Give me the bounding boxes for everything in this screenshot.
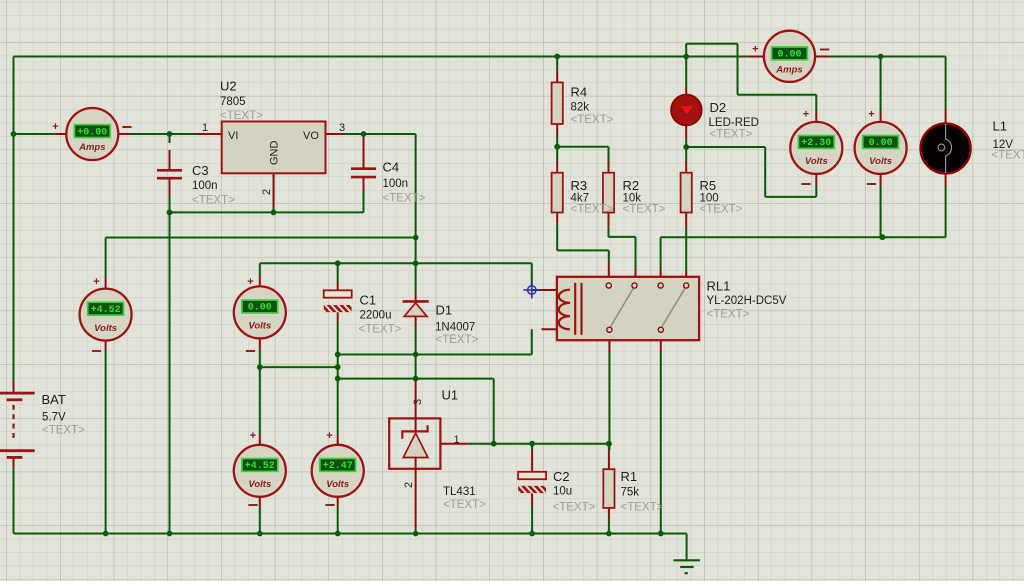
svg-text:100n: 100n: [383, 178, 409, 190]
svg-text:VI: VI: [228, 130, 238, 142]
svg-text:VO: VO: [303, 130, 319, 142]
svg-text:2: 2: [403, 482, 415, 488]
svg-text:Volts: Volts: [869, 156, 892, 167]
svg-text:R2: R2: [623, 178, 640, 193]
svg-text:<TEXT>: <TEXT>: [42, 425, 85, 437]
svg-text:5.7V: 5.7V: [42, 412, 66, 424]
svg-text:C3: C3: [192, 163, 209, 178]
svg-text:<TEXT>: <TEXT>: [707, 309, 750, 321]
svg-text:TL431: TL431: [443, 486, 476, 498]
svg-text:<TEXT>: <TEXT>: [220, 110, 263, 122]
svg-text:+2.30: +2.30: [801, 138, 831, 149]
svg-text:D1: D1: [436, 303, 453, 318]
svg-text:LED-RED: LED-RED: [709, 117, 759, 129]
svg-text:7805: 7805: [220, 96, 246, 108]
svg-text:1N4007: 1N4007: [435, 322, 475, 334]
svg-text:2200u: 2200u: [360, 310, 392, 322]
svg-text:<TEXT>: <TEXT>: [571, 114, 614, 126]
svg-text:C4: C4: [383, 160, 400, 175]
svg-text:<TEXT>: <TEXT>: [710, 129, 753, 141]
svg-text:R5: R5: [700, 178, 717, 193]
svg-text:75k: 75k: [621, 487, 640, 499]
svg-text:+: +: [247, 276, 253, 288]
svg-text:<TEXT>: <TEXT>: [383, 193, 426, 205]
svg-text:R3: R3: [571, 178, 588, 193]
svg-text:D2: D2: [710, 100, 727, 115]
svg-text:Volts: Volts: [248, 321, 271, 332]
svg-text:100n: 100n: [192, 180, 218, 192]
svg-text:YL-202H-DC5V: YL-202H-DC5V: [707, 295, 787, 307]
svg-text:+: +: [868, 109, 874, 121]
svg-text:0.00: 0.00: [248, 303, 272, 314]
svg-text:+: +: [326, 430, 332, 442]
svg-text:+2.47: +2.47: [323, 461, 353, 472]
svg-text:R1: R1: [621, 469, 638, 484]
svg-text:1: 1: [454, 434, 460, 446]
svg-text:+: +: [803, 109, 809, 121]
svg-text:+: +: [93, 276, 99, 288]
svg-text:Amps: Amps: [775, 65, 802, 76]
svg-text:<TEXT>: <TEXT>: [571, 204, 614, 216]
svg-text:<TEXT>: <TEXT>: [992, 150, 1024, 162]
svg-text:2: 2: [261, 189, 273, 195]
svg-text:3: 3: [339, 122, 345, 134]
svg-text:R4: R4: [571, 85, 588, 100]
svg-text:<TEXT>: <TEXT>: [436, 334, 479, 346]
svg-text:0.00: 0.00: [869, 138, 893, 149]
svg-text:+: +: [752, 44, 758, 56]
svg-text:Amps: Amps: [78, 142, 105, 153]
svg-text:+0.00: +0.00: [77, 127, 107, 138]
svg-text:GND: GND: [269, 141, 281, 166]
svg-text:BAT: BAT: [42, 392, 66, 407]
svg-text:10u: 10u: [553, 486, 572, 498]
svg-text:1: 1: [202, 122, 208, 134]
svg-text:Volts: Volts: [248, 479, 271, 490]
svg-text:<TEXT>: <TEXT>: [192, 195, 235, 207]
svg-text:Volts: Volts: [94, 323, 117, 334]
svg-text:+4.52: +4.52: [245, 461, 275, 472]
svg-text:RL1: RL1: [707, 279, 731, 294]
svg-text:<TEXT>: <TEXT>: [621, 502, 664, 514]
svg-text:+: +: [250, 430, 256, 442]
svg-text:<TEXT>: <TEXT>: [623, 204, 666, 216]
svg-text:L1: L1: [993, 119, 1007, 134]
svg-text:C2: C2: [553, 469, 570, 484]
svg-text:0.00: 0.00: [777, 50, 801, 61]
svg-text:+4.52: +4.52: [91, 305, 121, 316]
svg-text:<TEXT>: <TEXT>: [443, 499, 486, 511]
svg-text:3: 3: [412, 399, 424, 405]
svg-text:+: +: [52, 121, 58, 133]
svg-text:Volts: Volts: [326, 479, 349, 490]
svg-text:82k: 82k: [571, 102, 590, 114]
svg-text:<TEXT>: <TEXT>: [359, 324, 402, 336]
svg-text:Volts: Volts: [805, 156, 828, 167]
svg-text:U2: U2: [220, 79, 237, 94]
svg-text:<TEXT>: <TEXT>: [700, 204, 743, 216]
svg-text:C1: C1: [360, 293, 377, 308]
svg-text:<TEXT>: <TEXT>: [553, 502, 596, 514]
svg-text:U1: U1: [442, 388, 459, 403]
